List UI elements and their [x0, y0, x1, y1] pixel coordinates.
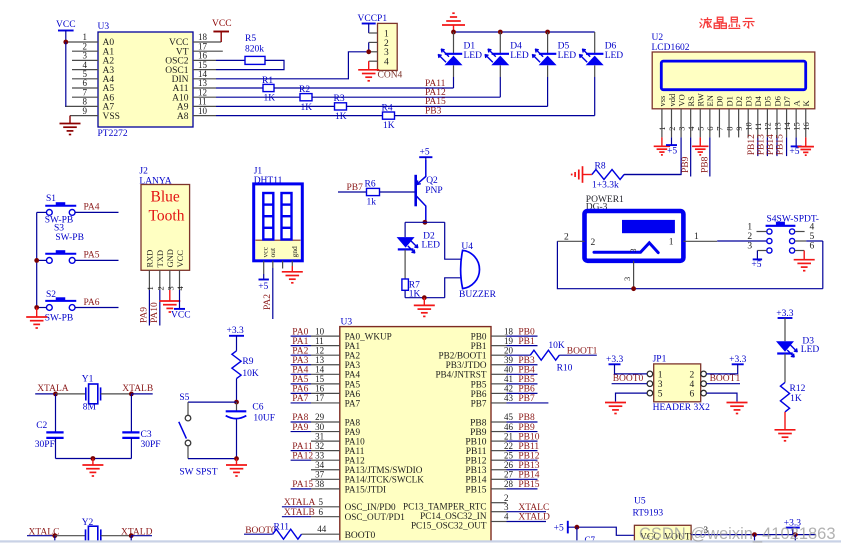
wire switch common bus — [36, 212, 38, 307]
LED D5 — [532, 49, 557, 66]
DHT11 grid left — [263, 193, 273, 240]
svg-text:XTALA: XTALA — [37, 384, 69, 394]
svg-text:PB6: PB6 — [518, 385, 535, 395]
svg-text:PA11: PA11 — [345, 446, 365, 456]
svg-text:PC15_OSC32_OUT: PC15_OSC32_OUT — [411, 521, 487, 531]
svg-text:PB5: PB5 — [471, 379, 487, 389]
svg-text:PB3: PB3 — [425, 106, 442, 116]
wire PB7 to R6 — [338, 191, 367, 193]
svg-text:PB8: PB8 — [518, 413, 535, 423]
svg-text:PA1: PA1 — [345, 341, 361, 351]
svg-text:D5: D5 — [558, 42, 570, 52]
svg-text:PA15/JTDI: PA15/JTDI — [345, 484, 387, 494]
S4 contact 6 (right) — [790, 248, 795, 253]
svg-text:3: 3 — [629, 249, 638, 253]
S4 slide bar — [766, 225, 796, 227]
svg-text:GND: GND — [165, 249, 175, 267]
ground (R8, sideways) — [572, 166, 583, 183]
resistor R9 — [232, 351, 241, 379]
svg-text:BOOT0: BOOT0 — [345, 531, 376, 541]
wire PT2272 row to R4 — [216, 115, 383, 117]
svg-text:+5: +5 — [789, 147, 799, 157]
PT2272 pin 6 A5 — [72, 87, 98, 89]
DG-3 pin3 stub — [633, 261, 635, 289]
wire node to buzzer pin1 — [445, 222, 463, 259]
resistor R1 — [263, 84, 274, 91]
svg-text:PB8: PB8 — [700, 156, 710, 173]
svg-text:EN: EN — [705, 95, 715, 106]
svg-text:PB7: PB7 — [347, 183, 364, 193]
PT2272 pin 5 A4 — [72, 78, 98, 80]
DHT11 nc pin — [282, 261, 284, 269]
svg-text:+5: +5 — [554, 524, 564, 534]
svg-text:D4: D4 — [753, 95, 763, 106]
MCU pin 29 PA8 — [291, 421, 311, 423]
svg-text:22: 22 — [504, 441, 513, 451]
ground C6/S5 — [236, 459, 238, 465]
svg-text:30: 30 — [315, 422, 325, 432]
resistor R11 — [273, 529, 302, 539]
PT2272 pin 15 OSC1 — [193, 69, 216, 71]
svg-text:2: 2 — [564, 233, 569, 243]
svg-text:1: 1 — [694, 232, 699, 242]
svg-text:PB4/JNTRST: PB4/JNTRST — [435, 370, 486, 380]
wire right edge up to S4 pin5 — [822, 241, 824, 289]
power VCC J2 pin4 — [179, 290, 181, 309]
svg-text:5: 5 — [319, 497, 324, 507]
svg-text:R10: R10 — [557, 364, 573, 374]
wire BOOT0 to R11 — [244, 533, 273, 535]
wire JP1 pin5 to ground — [616, 393, 648, 401]
CON4 pin 3 — [369, 51, 378, 53]
ground CON4 pin4 — [368, 61, 370, 70]
svg-text:HEADER 3X2: HEADER 3X2 — [653, 403, 711, 413]
switch S3 SW-PB — [45, 250, 76, 263]
svg-text:U2: U2 — [652, 33, 664, 43]
S4 pin4 stub — [795, 231, 805, 233]
ground JP1 right — [727, 403, 748, 414]
svg-text:PB9: PB9 — [518, 423, 535, 433]
svg-text:PA9: PA9 — [139, 307, 149, 323]
svg-text:1: 1 — [747, 223, 752, 233]
svg-text:U3: U3 — [98, 22, 110, 32]
svg-text:PB11: PB11 — [518, 442, 539, 452]
LCD pin16 stub + ground — [805, 109, 807, 138]
svg-text:34: 34 — [315, 460, 325, 470]
ground JP1 left — [605, 403, 626, 414]
MCU pin 2 PC13 — [491, 502, 507, 504]
PT2272 pin 3 A2 — [72, 59, 98, 61]
svg-text:D1: D1 — [464, 42, 476, 52]
node R9/C6/S5 junction — [234, 400, 239, 405]
wire rail to D6 — [594, 32, 596, 54]
wire rail to D5 — [547, 32, 549, 54]
JP1 pin 5 — [647, 390, 653, 396]
MCU pin 26 PB13 — [491, 469, 507, 471]
svg-text:OSC_IN/PD0: OSC_IN/PD0 — [345, 502, 396, 512]
svg-text:PA8: PA8 — [292, 413, 308, 423]
MCU pin 41 PB5 — [491, 383, 507, 385]
svg-text:PC13_TAMPER_RTC: PC13_TAMPER_RTC — [403, 502, 486, 512]
resistor R7 — [402, 279, 409, 290]
wire CON4 pin2-pin3 tie — [368, 42, 370, 51]
svg-text:Q2: Q2 — [426, 176, 438, 186]
svg-text:PA5: PA5 — [292, 375, 308, 385]
svg-text:R9: R9 — [242, 357, 253, 367]
wire +3.3 to D3 — [784, 318, 786, 341]
svg-text:BOOT0: BOOT0 — [613, 374, 644, 384]
svg-text:3: 3 — [622, 277, 632, 281]
node CON4 pin3 junction — [366, 49, 371, 54]
svg-text:PC14_OSC32_IN: PC14_OSC32_IN — [420, 511, 487, 521]
wire J2 pin2 / net PA10 — [159, 290, 161, 326]
svg-text:PB5: PB5 — [518, 375, 535, 385]
wire DIN pin14 to CON4 — [216, 52, 366, 79]
svg-text:PB9: PB9 — [470, 428, 487, 438]
JP1 pin 1 — [647, 371, 653, 377]
MCU pin 37 PA14/JTCK/SWCLK — [311, 478, 340, 480]
S4 contact 1 (left) — [767, 229, 772, 234]
svg-text:20: 20 — [504, 345, 514, 355]
svg-text:43: 43 — [504, 393, 514, 403]
svg-text:PB14: PB14 — [766, 134, 776, 155]
svg-text:VCC: VCC — [56, 20, 76, 30]
svg-text:D5: D5 — [763, 96, 773, 106]
MCU pin 12 PA2 — [291, 354, 311, 356]
MCU pin 31 PA10 — [311, 440, 340, 442]
svg-text:R2: R2 — [299, 85, 310, 95]
svg-text:Y1: Y1 — [82, 375, 94, 385]
node U5 out junction 1 — [752, 532, 757, 537]
svg-text:C3: C3 — [141, 430, 152, 440]
S4 pin6 stub + ground — [795, 250, 805, 252]
wire R11 to pin 44 — [302, 533, 340, 535]
CON4 pin 2 — [369, 41, 378, 43]
svg-text:PA3: PA3 — [345, 360, 361, 370]
svg-text:gnd: gnd — [290, 246, 299, 258]
PT2272 pin 16 OSC2 — [193, 59, 216, 61]
wire S3 left — [37, 259, 47, 261]
MCU pin 39 PB3/JTDO — [491, 364, 507, 366]
svg-text:32: 32 — [315, 441, 324, 451]
crystal Y2 — [86, 526, 101, 543]
wire XTALC — [27, 535, 55, 537]
MCU pin 5 OSC_IN/PD0 — [282, 506, 311, 508]
DHT11 vcc pin + +5 — [263, 261, 265, 274]
transistor Q2 PNP — [416, 160, 426, 221]
wire PT2272 row to R2 — [216, 96, 300, 98]
power VCC (CON4 pin1) — [362, 23, 376, 25]
wire DG-3 pin2 loop left-bottom — [557, 241, 822, 288]
svg-text:PA3: PA3 — [292, 356, 308, 366]
node Q2 collector junction — [423, 220, 428, 225]
node S3 junction — [34, 258, 39, 263]
ground J2 GND pin — [169, 290, 171, 301]
wire PT2272 row to R1 — [216, 87, 263, 89]
svg-text:+5: +5 — [420, 148, 430, 158]
node C6/S5 ground junction — [234, 456, 239, 461]
svg-text:PA10: PA10 — [150, 302, 160, 323]
DHT11 pin strip — [255, 240, 300, 259]
svg-text:PA2: PA2 — [263, 294, 273, 310]
wire +5 to U5 — [568, 527, 635, 535]
resistor R2 — [300, 94, 312, 101]
svg-text:CSDN @weixin_41021863: CSDN @weixin_41021863 — [639, 525, 836, 543]
LCD pin13 wire / net PB14 — [776, 109, 778, 138]
svg-text:VCC: VCC — [171, 311, 191, 321]
svg-text:25: 25 — [504, 450, 514, 460]
svg-text:RXD: RXD — [145, 250, 155, 268]
svg-text:PA5: PA5 — [345, 379, 361, 389]
svg-text:1: 1 — [145, 286, 155, 290]
IC U3 STM32 body — [340, 327, 491, 543]
wire rail to D1 — [453, 32, 455, 54]
svg-text:PB14: PB14 — [465, 476, 486, 486]
svg-text:18: 18 — [504, 326, 514, 336]
svg-text:SW-PB: SW-PB — [55, 233, 84, 243]
wire node to D2 — [404, 222, 406, 237]
svg-text:PA7: PA7 — [292, 394, 308, 404]
LCD U2 body — [652, 52, 815, 109]
svg-text:26: 26 — [504, 460, 514, 470]
svg-text:42: 42 — [504, 384, 513, 394]
CON4 pin 4 — [369, 60, 378, 62]
wire C6 to ground node — [236, 420, 238, 459]
svg-text:LED: LED — [801, 345, 820, 355]
S4 contact 4 (right) — [790, 229, 795, 234]
JP1 pin 3 — [647, 381, 653, 387]
svg-text:RW: RW — [696, 93, 706, 106]
svg-text:PB15: PB15 — [518, 480, 539, 490]
MCU pin 30 PA9 — [291, 431, 311, 433]
PT2272 pin 9 VSS — [70, 115, 98, 117]
svg-text:11: 11 — [315, 336, 324, 346]
PT2272 pin 4 A3 — [72, 69, 98, 71]
svg-text:17: 17 — [315, 393, 325, 403]
wire JP1 pin4 BOOT1 — [706, 383, 740, 385]
wire D6 to row — [594, 65, 596, 77]
svg-text:PA0: PA0 — [292, 327, 308, 337]
svg-text:1K: 1K — [335, 112, 347, 122]
svg-text:31: 31 — [315, 431, 324, 441]
svg-text:PA15: PA15 — [292, 480, 313, 490]
resistor R12 — [780, 382, 789, 412]
svg-text:1: 1 — [658, 370, 663, 380]
svg-text:PA14/JTCK/SWCLK: PA14/JTCK/SWCLK — [345, 475, 425, 485]
LCD pin9 stub (nc) — [738, 109, 740, 138]
node Y1 ground junction — [91, 456, 96, 461]
node S2 junction — [34, 305, 39, 310]
svg-text:R12: R12 — [790, 384, 806, 394]
svg-text:D3: D3 — [744, 96, 754, 106]
LCD pin15 wire + +5 — [795, 109, 797, 138]
MCU pin 3 PC14 / net XTALC — [491, 511, 507, 513]
svg-text:XTALB: XTALB — [284, 508, 315, 518]
wire S1 left — [37, 211, 47, 213]
wire S2 to net PA6 — [75, 307, 119, 309]
LCD pin1 stub + ground — [661, 109, 663, 138]
svg-text:6: 6 — [690, 390, 695, 400]
svg-text:1+3.3k: 1+3.3k — [592, 181, 619, 191]
svg-text:PA12: PA12 — [292, 451, 313, 461]
MCU pin 45 PB8 — [491, 421, 507, 423]
svg-text:10UF: 10UF — [253, 414, 275, 424]
wire XTALA — [35, 393, 55, 395]
svg-text:46: 46 — [504, 422, 514, 432]
wire R10 to BOOT1 — [559, 354, 597, 356]
svg-text:PA6: PA6 — [292, 385, 308, 395]
svg-text:38: 38 — [315, 479, 325, 489]
svg-text:PA9: PA9 — [345, 427, 361, 437]
svg-text:PB15: PB15 — [465, 485, 486, 495]
LCD pin11 wire / net PB12 — [757, 109, 759, 138]
svg-text:13: 13 — [315, 355, 325, 365]
PT2272 pin 14 DIN — [193, 78, 216, 80]
header JP1 body — [654, 364, 701, 402]
svg-text:3: 3 — [747, 242, 752, 252]
wire D4 to row — [499, 65, 501, 77]
svg-text:PA6: PA6 — [345, 389, 361, 399]
svg-text:28: 28 — [504, 479, 514, 489]
wire to Y1 left — [56, 393, 86, 395]
PT2272 pin 13 A11 — [193, 87, 216, 89]
regulator U5 body — [634, 525, 691, 543]
svg-text:S1: S1 — [46, 194, 56, 204]
svg-text:VCC: VCC — [212, 19, 232, 29]
S4 contact 2 (left) — [767, 238, 772, 243]
LCD pin14 wire / net PB15 — [786, 109, 788, 138]
svg-text:R1: R1 — [262, 76, 273, 86]
LED D2 — [397, 237, 419, 253]
DG-3 spring contact — [594, 243, 658, 253]
svg-text:1: 1 — [669, 237, 674, 247]
svg-text:XTALB: XTALB — [122, 384, 153, 394]
svg-text:10K: 10K — [242, 369, 259, 379]
ground switches — [36, 308, 38, 318]
wire S2 left — [37, 307, 47, 309]
svg-text:+5: +5 — [258, 282, 268, 292]
svg-text:K: K — [801, 100, 811, 107]
wire C2 to bottom — [55, 438, 57, 459]
connector P1 CON4 body — [378, 23, 398, 70]
JP1 pin 2 — [701, 371, 707, 377]
svg-text:J1: J1 — [254, 167, 263, 177]
svg-text:PB12: PB12 — [465, 457, 486, 467]
svg-text:LED: LED — [422, 241, 441, 251]
svg-text:10: 10 — [315, 326, 325, 336]
svg-text:PB1: PB1 — [518, 337, 535, 347]
wire R9 to node — [236, 379, 238, 403]
svg-text:out: out — [268, 247, 277, 258]
svg-text:2: 2 — [690, 370, 695, 380]
svg-text:A: A — [791, 100, 801, 107]
svg-text:33: 33 — [315, 450, 325, 460]
wire J2 pin1 / net PA9 — [148, 290, 150, 326]
svg-text:R6: R6 — [365, 179, 376, 189]
svg-text:LED: LED — [464, 51, 483, 61]
svg-text:15: 15 — [315, 374, 325, 384]
wire XTALA down to C2 — [55, 394, 57, 433]
svg-text:Blue: Blue — [151, 189, 180, 206]
svg-text:R4: R4 — [382, 103, 393, 113]
svg-text:PA4: PA4 — [345, 370, 361, 380]
wire DG-3 pin1 to S4 pin2 — [717, 240, 767, 242]
svg-text:PB11: PB11 — [466, 447, 487, 457]
svg-text:27: 27 — [504, 470, 514, 480]
wire C3 to bottom — [130, 438, 132, 459]
wire pin20 to R10 — [507, 354, 531, 356]
svg-text:5: 5 — [658, 390, 663, 400]
MCU pin 40 PB4/JNTRST — [491, 373, 507, 375]
MCU pin 33 PA12 — [291, 459, 311, 461]
svg-text:+3.3: +3.3 — [606, 355, 623, 365]
svg-text:CON4: CON4 — [378, 71, 403, 81]
PT2272 pin 7 A6 — [72, 96, 98, 98]
PT2272 pin 8 A7 — [65, 105, 98, 107]
svg-text:10K: 10K — [548, 341, 565, 351]
JP1 pin 4 — [701, 381, 707, 387]
S4 pin5 stub wire — [795, 240, 807, 242]
svg-text:BOOT1: BOOT1 — [710, 374, 741, 384]
svg-text:1k: 1k — [367, 198, 377, 208]
switch S2 SW-PB — [45, 297, 76, 310]
svg-text:9: 9 — [83, 106, 88, 116]
wire S1 to net PA4 — [75, 211, 119, 213]
S4 pin3 wire + +5 — [757, 250, 766, 252]
svg-text:30PF: 30PF — [141, 440, 161, 450]
MCU pin 19 PB1 — [491, 345, 507, 347]
MCU pin 43 PB7 — [491, 402, 507, 404]
svg-text:4: 4 — [810, 223, 815, 233]
svg-text:BUZZER: BUZZER — [459, 290, 497, 300]
PT2272 pin 2 A1 — [72, 50, 98, 52]
wire R4 to LED column / net PB3 — [395, 115, 595, 117]
svg-text:PB10: PB10 — [518, 432, 539, 442]
wire VCC bus down to pin 8 — [65, 42, 67, 106]
LCD pin10 stub (nc) — [747, 109, 749, 138]
module J2 Blue Tooth body — [141, 185, 190, 271]
capacitor C3 — [122, 431, 139, 433]
node DG-3 pin3 junction — [631, 286, 636, 291]
svg-text:LED: LED — [510, 51, 529, 61]
resistor R10 — [530, 350, 559, 360]
node XTALA junction — [53, 392, 58, 397]
MCU pin 10 PA0_WKUP — [291, 335, 311, 337]
node U5 out junction 2 — [793, 532, 798, 537]
MCU pin 46 PB9 — [491, 431, 507, 433]
svg-text:D1: D1 — [724, 96, 734, 106]
svg-text:PB15: PB15 — [776, 134, 786, 155]
svg-text:PA8: PA8 — [345, 417, 361, 427]
svg-text:PA4: PA4 — [84, 203, 100, 213]
wire R6 to Q2 base — [380, 191, 415, 193]
svg-text:A8: A8 — [177, 112, 189, 122]
ground buzzer node — [423, 298, 425, 306]
svg-text:PB2/BOOT1: PB2/BOOT1 — [439, 351, 487, 361]
svg-text:D4: D4 — [510, 42, 522, 52]
wire PT2272 row to R3 — [216, 105, 335, 107]
svg-text:PB8: PB8 — [470, 418, 487, 428]
svg-text:PB3: PB3 — [518, 356, 535, 366]
svg-text:RT9193: RT9193 — [633, 509, 664, 519]
wire R3 to LED column / net PA15 — [347, 105, 548, 107]
PT2272 pin 12 A10 — [193, 96, 216, 98]
svg-text:39: 39 — [504, 355, 514, 365]
svg-text:PB10: PB10 — [465, 438, 486, 448]
capacitor C2 — [46, 431, 63, 433]
svg-text:SW-PB: SW-PB — [45, 313, 74, 323]
svg-text:1K: 1K — [790, 394, 802, 404]
